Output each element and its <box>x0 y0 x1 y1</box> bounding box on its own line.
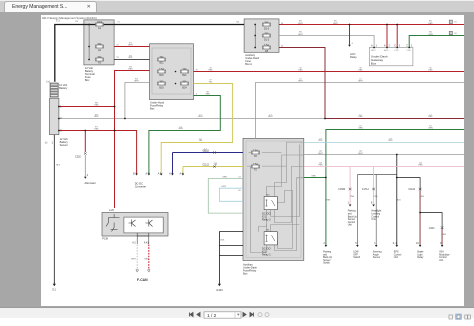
svg-text:1: 1 <box>52 141 54 145</box>
svg-text:5: 5 <box>355 243 357 245</box>
svg-text:WHT: WHT <box>94 116 99 118</box>
svg-text:30A: 30A <box>97 43 102 46</box>
svg-text:4: 4 <box>87 174 89 177</box>
svg-text:G403: G403 <box>216 288 223 292</box>
svg-text:A 2: A 2 <box>132 242 136 245</box>
svg-text:A2-3: A2-3 <box>384 49 388 52</box>
svg-text:RED: RED <box>144 259 149 261</box>
svg-text:Battery: Battery <box>59 86 68 90</box>
svg-text:1: 1 <box>376 45 378 47</box>
svg-text:WHT: WHT <box>298 23 303 25</box>
svg-text:GRN: GRN <box>222 176 227 178</box>
svg-text:10A: 10A <box>182 68 187 71</box>
svg-text:Control: Control <box>439 256 447 259</box>
svg-text:RED: RED <box>428 116 433 118</box>
svg-text:Box: Box <box>243 271 248 275</box>
svg-text:100A: 100A <box>97 21 103 24</box>
svg-text:Switch: Switch <box>323 262 331 265</box>
svg-text:BLU: BLU <box>204 151 208 153</box>
svg-text:WHT: WHT <box>298 34 303 36</box>
svg-text:7.5A: 7.5A <box>264 44 269 47</box>
svg-text:C1712: C1712 <box>362 189 370 191</box>
svg-text:OFF: OFF <box>353 254 358 256</box>
svg-text:1-1: 1-1 <box>56 21 60 23</box>
svg-text:Brake: Brake <box>417 251 424 254</box>
svg-text:2: 2 <box>389 45 391 47</box>
svg-text:Back-Up: Back-Up <box>323 257 333 259</box>
svg-text:Switch: Switch <box>353 256 361 259</box>
svg-text:Unit: Unit <box>394 256 398 259</box>
svg-text:C2-5: C2-5 <box>395 50 399 52</box>
svg-text:HR-V Energy Management System: HR-V Energy Management System (KA/KC) <box>42 16 97 20</box>
svg-text:RED: RED <box>94 104 99 106</box>
svg-text:BLK: BLK <box>129 57 133 59</box>
svg-text:EPS: EPS <box>394 252 399 254</box>
svg-text:WHT: WHT <box>131 259 136 261</box>
svg-text:C204: C204 <box>429 228 435 230</box>
svg-text:D2-3: D2-3 <box>264 27 270 30</box>
svg-text:Back-Up: Back-Up <box>348 216 358 218</box>
svg-text:RED: RED <box>358 69 363 71</box>
svg-text:G1: G1 <box>52 288 56 292</box>
svg-text:C1124: C1124 <box>408 189 415 191</box>
svg-text:RED: RED <box>420 196 425 198</box>
svg-text:Relay: Relay <box>417 257 424 259</box>
svg-text:A 41: A 41 <box>144 242 149 245</box>
svg-text:(-): (-) <box>45 141 48 145</box>
svg-text:GRN: GRN <box>428 34 433 36</box>
svg-text:Steering: Steering <box>373 251 382 254</box>
svg-text:RED: RED <box>94 128 99 130</box>
svg-text:B24: B24 <box>182 86 187 89</box>
svg-text:T1: T1 <box>117 22 120 24</box>
svg-text:Control: Control <box>348 221 356 224</box>
svg-text:BLU: BLU <box>389 140 393 142</box>
svg-text:Parking: Parking <box>348 210 357 213</box>
svg-text:RED: RED <box>358 116 363 118</box>
svg-text:and: and <box>323 254 328 256</box>
svg-text:Sensor: Sensor <box>60 143 68 147</box>
svg-text:10: 10 <box>416 243 419 245</box>
svg-text:Control: Control <box>394 253 402 256</box>
svg-text:WHT: WHT <box>198 116 203 118</box>
svg-text:WHT: WHT <box>128 44 133 46</box>
svg-text:Parking: Parking <box>323 251 332 254</box>
svg-text:RED: RED <box>428 23 433 25</box>
svg-text:3: 3 <box>399 45 401 47</box>
svg-text:15: 15 <box>454 22 457 24</box>
svg-text:A 26: A 26 <box>109 209 114 212</box>
svg-text:A: A <box>384 44 386 47</box>
svg-text:B15: B15 <box>159 74 164 77</box>
svg-text:16: 16 <box>238 190 241 192</box>
svg-text:PNK: PNK <box>374 196 379 198</box>
svg-text:BLK: BLK <box>221 240 225 242</box>
svg-text:1: 1 <box>352 43 354 45</box>
svg-text:6, 1: 6, 1 <box>393 243 398 245</box>
svg-text:7.5A: 7.5A <box>253 163 258 166</box>
svg-text:C1584: C1584 <box>338 189 346 191</box>
svg-text:GRN: GRN <box>428 128 433 130</box>
svg-text:and: and <box>348 214 353 216</box>
svg-text:YEL: YEL <box>199 140 204 142</box>
svg-text:30A: 30A <box>264 33 269 36</box>
svg-text:16: 16 <box>454 33 457 35</box>
svg-text:VSA: VSA <box>439 251 444 254</box>
svg-text:RED: RED <box>208 69 213 71</box>
svg-text:WHT: WHT <box>134 81 139 83</box>
svg-text:RED: RED <box>428 69 433 71</box>
svg-text:30A: 30A <box>159 81 164 84</box>
svg-text:LDW: LDW <box>353 252 359 254</box>
svg-text:30A: 30A <box>264 22 269 25</box>
svg-text:RED: RED <box>128 68 133 70</box>
svg-text:30A: 30A <box>97 56 102 59</box>
svg-text:PNK: PNK <box>350 196 355 198</box>
svg-text:C2-8: C2-8 <box>407 50 411 52</box>
svg-text:2: 2 <box>411 45 413 47</box>
svg-text:GRN: GRN <box>326 200 331 202</box>
svg-text:C1112: C1112 <box>203 164 210 166</box>
svg-text:WHT: WHT <box>298 81 303 83</box>
svg-text:T14: T14 <box>75 21 79 23</box>
svg-text:BLK: BLK <box>56 165 60 167</box>
svg-text:PNK: PNK <box>318 164 323 166</box>
svg-text:Modulator-: Modulator- <box>439 253 450 256</box>
svg-text:Relay: Relay <box>350 55 357 59</box>
svg-text:D1-2: D1-2 <box>264 39 270 42</box>
svg-text:30A: 30A <box>159 56 164 59</box>
svg-text:Relay 1: Relay 1 <box>262 253 271 257</box>
svg-text:30A: 30A <box>182 81 187 84</box>
svg-text:WHT: WHT <box>358 153 363 155</box>
svg-text:B19: B19 <box>159 86 164 89</box>
svg-text:T3: T3 <box>116 57 119 59</box>
svg-text:Headlight: Headlight <box>371 210 381 213</box>
svg-text:A: A <box>371 44 373 47</box>
svg-text:Leveling: Leveling <box>371 214 380 216</box>
svg-text:Box: Box <box>85 78 90 82</box>
svg-text:WHT: WHT <box>268 116 273 118</box>
svg-text:WHT: WHT <box>358 81 363 83</box>
svg-text:Sensor: Sensor <box>323 259 331 262</box>
svg-text:Alternator: Alternator <box>85 181 96 185</box>
svg-text:Unit: Unit <box>371 218 375 221</box>
svg-text:8: 8 <box>371 203 373 205</box>
svg-text:Unit: Unit <box>439 259 443 262</box>
svg-text:Light: Light <box>417 253 422 256</box>
svg-text:C: C <box>394 45 396 47</box>
svg-text:BLU: BLU <box>319 140 323 142</box>
svg-text:GRN: GRN <box>311 176 316 178</box>
svg-text:WHT: WHT <box>333 23 338 25</box>
svg-text:B11: B11 <box>159 62 164 65</box>
svg-text:GRN: GRN <box>178 128 183 130</box>
svg-text:1: 1 <box>348 203 350 205</box>
svg-text:T14: T14 <box>236 22 240 24</box>
svg-text:7.5A: 7.5A <box>253 149 258 152</box>
svg-text:Converter: Converter <box>135 185 147 189</box>
svg-text:(+): (+) <box>47 79 50 83</box>
svg-text:7.5A: 7.5A <box>159 68 164 71</box>
svg-text:GRN: GRN <box>358 128 363 130</box>
svg-text:C202: C202 <box>75 155 81 158</box>
svg-text:RED: RED <box>298 69 303 71</box>
svg-text:Box: Box <box>150 106 155 110</box>
svg-text:Box A: Box A <box>245 62 252 66</box>
svg-text:RED: RED <box>442 234 447 236</box>
svg-text:Angle: Angle <box>373 253 380 256</box>
svg-text:Box: Box <box>371 62 377 66</box>
svg-text:PNK: PNK <box>418 164 423 166</box>
svg-text:GRN: GRN <box>205 93 210 95</box>
svg-text:Sensor: Sensor <box>348 218 356 221</box>
svg-text:A2-7: A2-7 <box>372 49 376 52</box>
svg-text:Sensor: Sensor <box>373 256 381 259</box>
svg-text:BLK: BLK <box>397 200 401 202</box>
svg-text:WHT: WHT <box>318 153 323 155</box>
svg-text:YEL: YEL <box>214 164 219 166</box>
svg-text:F-CAN: F-CAN <box>137 278 148 282</box>
svg-text:Control: Control <box>371 215 379 218</box>
svg-text:PCM: PCM <box>102 237 108 241</box>
svg-text:C: C <box>406 45 408 47</box>
svg-text:Unit: Unit <box>348 224 352 227</box>
svg-text:2: 2 <box>324 243 326 245</box>
svg-text:Relay 2: Relay 2 <box>262 217 271 221</box>
svg-text:B21: B21 <box>182 74 187 77</box>
